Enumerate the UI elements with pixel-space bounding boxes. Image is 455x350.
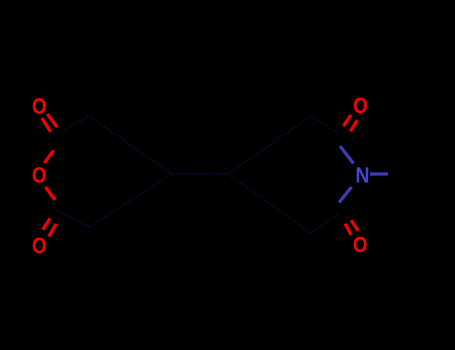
wire: carbon skeleton bond A2-V (near-black)	[89, 174, 172, 227]
imide carbonyl C4=O5 double bond (bottom right), line 2	[351, 220, 358, 230]
svg-text:O: O	[32, 233, 47, 258]
svg-text:O: O	[353, 93, 368, 118]
wire: carbon skeleton bond A4-W (near-black)	[228, 174, 311, 233]
bond C3-N (nitrogen half)	[340, 146, 354, 164]
wire: carbon skeleton bond A1-V (near-black)	[89, 116, 172, 174]
anhydride carbonyl C2=O3 double bond (bottom left), line 2	[49, 224, 56, 237]
wire: carbon skeleton bond V-W (near-black)	[172, 173, 228, 175]
wire: carbon skeleton bond C4-A4 (near-black)	[311, 214, 338, 233]
wire: carbon skeleton bond A3-W (near-black)	[228, 116, 311, 174]
svg-text:N: N	[355, 163, 369, 188]
bond N-C4 (nitrogen half)	[339, 187, 352, 203]
imide carbonyl C3=O4 double bond (top right), line 1	[343, 115, 351, 126]
svg-text:O: O	[353, 232, 368, 257]
anhydride carbonyl C1=O1 double bond (top left), line 1	[42, 118, 51, 132]
imide carbonyl C3=O4 double bond (top right), line 2	[350, 120, 357, 131]
wire: carbon skeleton bond C2-A2 (near-black)	[58, 211, 89, 227]
anhydride carbonyl C2=O3 double bond (bottom left), line 1	[43, 218, 50, 229]
bond N-CH3 (methyl, nitrogen half)	[370, 172, 388, 175]
imide carbonyl C4=O5 double bond (bottom right), line 1	[345, 224, 351, 235]
svg-text:O: O	[32, 93, 47, 118]
wire: carbon skeleton bond C3-A3 (near-black)	[311, 116, 338, 133]
bond C1-O2 (ring oxygen half)	[44, 150, 53, 163]
anhydride carbonyl C1=O1 double bond (top left), line 2	[47, 114, 57, 127]
wire: carbon skeleton bond C1-A1 (near-black)	[60, 116, 89, 132]
svg-text:O: O	[32, 163, 47, 188]
bond O2-C2 (ring oxygen half)	[46, 187, 56, 200]
